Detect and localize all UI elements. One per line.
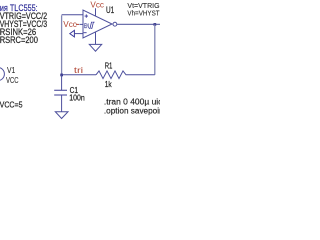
capacitor C1 <box>54 90 67 95</box>
resistor R1 <box>96 71 155 79</box>
svg-text:100n: 100n <box>69 93 84 102</box>
svg-text:V1: V1 <box>7 65 16 75</box>
svg-text:Vh=VHYST: Vh=VHYST <box>127 9 159 18</box>
ground (U1 com) <box>89 44 101 51</box>
svg-text:1k: 1k <box>105 79 112 89</box>
junction output/R1 <box>154 23 157 26</box>
svg-text:U1: U1 <box>106 5 114 15</box>
U1 hysteresis glyph <box>89 22 95 28</box>
wire tri down to C1 <box>61 75 63 90</box>
wire tri to R1 <box>62 74 96 76</box>
svg-text:tri: tri <box>74 66 83 75</box>
svg-text:Vcc: Vcc <box>63 19 77 29</box>
svg-text:EN: EN <box>84 23 89 30</box>
wire plus input (top) <box>62 14 83 16</box>
wire tri node vertical <box>61 15 63 75</box>
wire Vcc to U1 top <box>95 8 97 16</box>
red label leader dash <box>76 23 79 25</box>
port flag on minus input <box>70 30 75 37</box>
wire U1 output <box>117 23 160 25</box>
wire U1 com to ground <box>95 32 97 44</box>
svg-text:R1: R1 <box>105 60 113 70</box>
svg-text:VCC=5: VCC=5 <box>0 100 23 110</box>
U1 output bubble <box>113 22 117 26</box>
ground (C1) <box>55 112 68 119</box>
voltage source V1 (clipped at left edge) <box>0 67 4 80</box>
wire C1 to ground <box>61 95 63 112</box>
schmitt trigger U1 body <box>83 10 112 38</box>
svg-text:Vcc: Vcc <box>90 0 104 10</box>
node tri junction <box>60 74 63 77</box>
wire minus input <box>74 33 83 35</box>
U1 plus input marker <box>85 14 88 17</box>
wire EN pin <box>79 23 83 25</box>
svg-text:.tran 0 400µ uic: .tran 0 400µ uic <box>104 98 160 107</box>
svg-text:RSRC=200: RSRC=200 <box>0 35 38 45</box>
U1 minus input marker <box>84 32 87 34</box>
svg-text:.option savepoint: .option savepoint <box>104 107 160 116</box>
svg-text:VCC: VCC <box>6 75 19 85</box>
wire output down to R1 <box>154 24 156 74</box>
